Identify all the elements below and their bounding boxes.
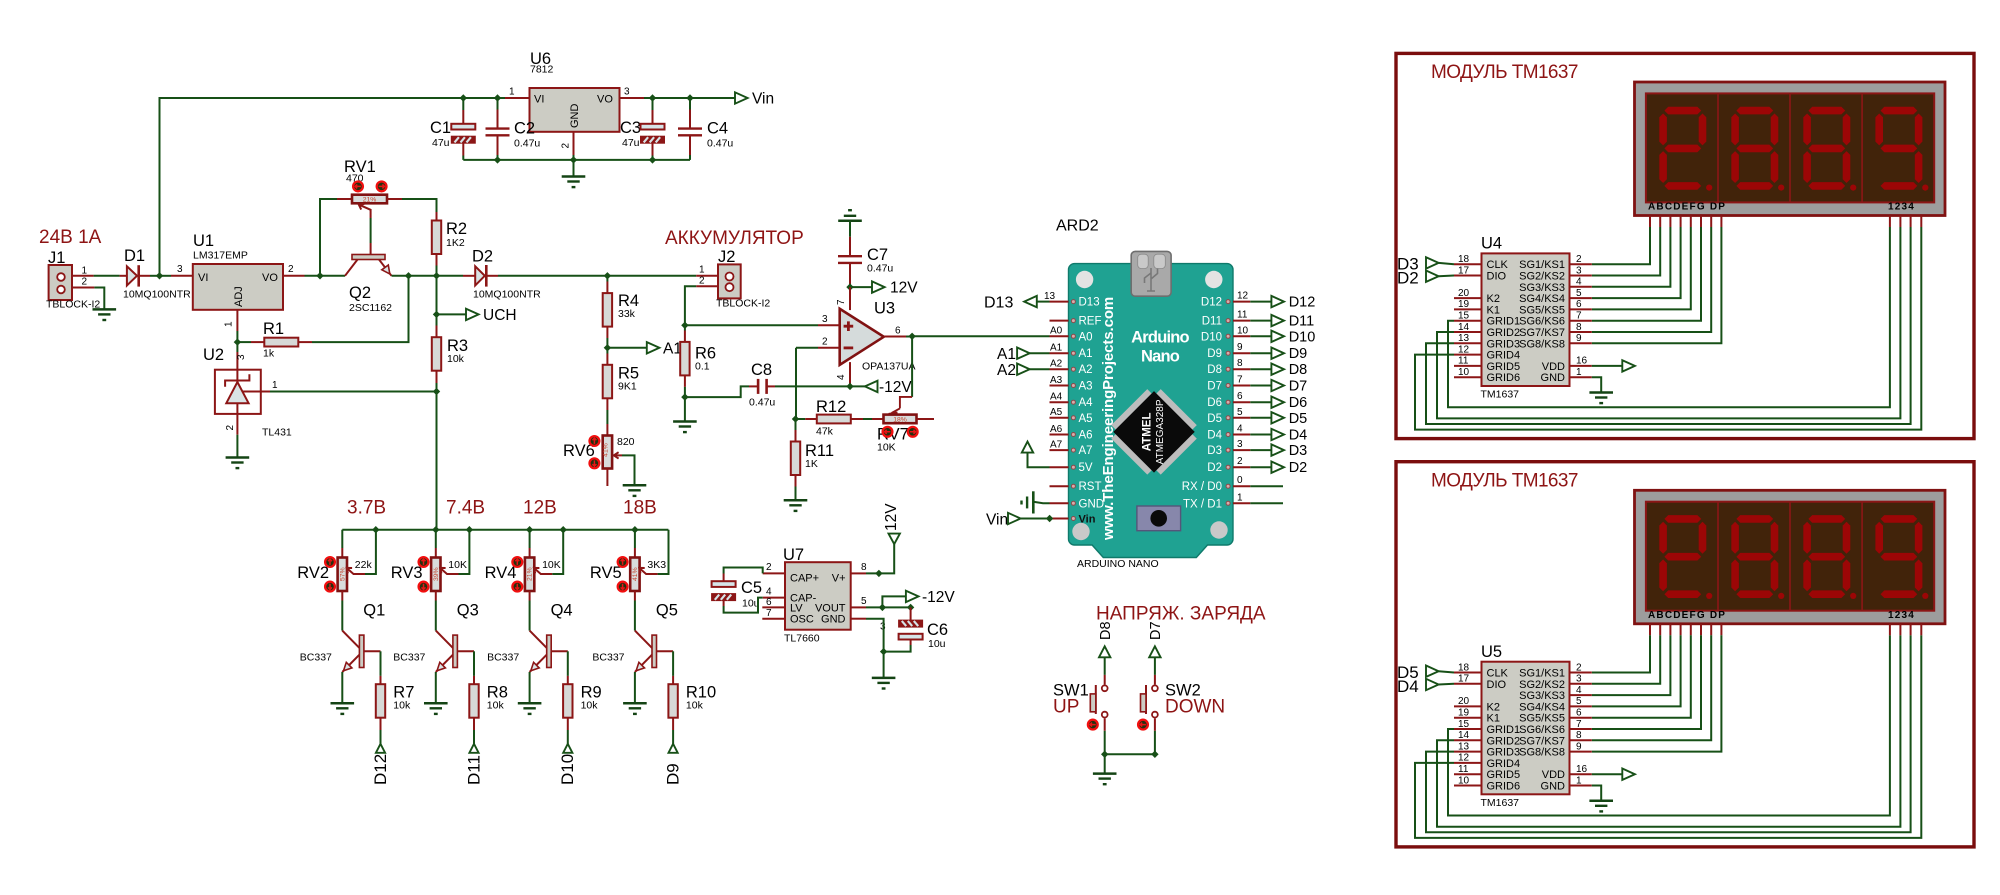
svg-text:ARD2: ARD2 bbox=[1056, 218, 1099, 235]
svg-text:TL431: TL431 bbox=[262, 427, 292, 439]
svg-text:C4: C4 bbox=[707, 120, 728, 138]
wire display seg B to SG2 (U5) bbox=[1659, 624, 1661, 636]
svg-text:7.4В: 7.4В bbox=[446, 498, 485, 519]
svg-text:15: 15 bbox=[1458, 719, 1470, 730]
module box МОДУЛЬ TM1637 (U5) bbox=[1396, 462, 1974, 847]
svg-text:C8: C8 bbox=[751, 361, 772, 379]
svg-text:GRID1: GRID1 bbox=[1487, 316, 1521, 328]
svg-text:Vin: Vin bbox=[1079, 514, 1096, 526]
svg-text:A1: A1 bbox=[1079, 348, 1093, 360]
svg-text:SG3/KS3: SG3/KS3 bbox=[1519, 282, 1565, 294]
pin GRID4 U5 bbox=[1454, 762, 1482, 764]
wire D1 node up and right to C1/U6 rail bbox=[160, 98, 464, 276]
wire U6 VO to Vin terminal bbox=[644, 97, 735, 99]
junction bbox=[879, 604, 886, 611]
svg-text:SG3/KS3: SG3/KS3 bbox=[1519, 690, 1565, 702]
display digit 2 (U4) bbox=[1736, 107, 1773, 115]
svg-text:A4: A4 bbox=[1050, 392, 1063, 403]
display digit 3 (U4) bbox=[1808, 107, 1845, 115]
svg-text:12: 12 bbox=[1458, 344, 1470, 355]
junction bbox=[570, 156, 577, 163]
svg-text:VO: VO bbox=[597, 94, 613, 106]
svg-text:D2: D2 bbox=[1207, 462, 1222, 474]
node R4 top bbox=[604, 272, 611, 279]
svg-text:10: 10 bbox=[1458, 367, 1470, 378]
svg-text:GRID2: GRID2 bbox=[1487, 327, 1521, 339]
svg-text:5V: 5V bbox=[1079, 462, 1093, 474]
svg-text:11: 11 bbox=[1458, 356, 1469, 367]
pin K2 U5 bbox=[1454, 705, 1482, 707]
svg-text:K1: K1 bbox=[1487, 713, 1500, 725]
wire display seg D to SG4 (U4) bbox=[1680, 216, 1682, 228]
svg-text:SG1/KS1: SG1/KS1 bbox=[1519, 259, 1565, 271]
svg-text:4: 4 bbox=[1576, 685, 1582, 696]
svg-text:Q5: Q5 bbox=[656, 602, 678, 620]
svg-text:3: 3 bbox=[1576, 265, 1582, 276]
svg-text:SG7/KS7: SG7/KS7 bbox=[1519, 327, 1565, 339]
svg-text:Q1: Q1 bbox=[363, 602, 385, 620]
node after D1 bbox=[156, 272, 163, 279]
pin SG6/KS6 U5 bbox=[1570, 728, 1592, 730]
svg-text:12В: 12В bbox=[523, 498, 557, 519]
svg-text:C5: C5 bbox=[741, 579, 762, 597]
svg-text:U5: U5 bbox=[1481, 643, 1502, 661]
wire GRID1 to digit 1 (U4) bbox=[1448, 227, 1890, 407]
svg-text:RV3: RV3 bbox=[391, 564, 423, 582]
feedback wire out to RV7 wiper bbox=[911, 336, 913, 397]
svg-text:0.47u: 0.47u bbox=[707, 138, 733, 150]
svg-text:8: 8 bbox=[861, 562, 867, 573]
svg-text:7: 7 bbox=[1576, 311, 1582, 322]
svg-text:МОДУЛЬ TM1637: МОДУЛЬ TM1637 bbox=[1431, 470, 1578, 491]
svg-text:SG7/KS7: SG7/KS7 bbox=[1519, 735, 1565, 747]
wire display seg E to SG5 (U4) bbox=[1690, 216, 1692, 228]
svg-text:5: 5 bbox=[1576, 288, 1582, 299]
terminal Vin bbox=[735, 92, 748, 103]
svg-text:TX / D1: TX / D1 bbox=[1183, 498, 1222, 510]
svg-text:5: 5 bbox=[861, 596, 867, 607]
ATMEGA328P chip bbox=[1105, 382, 1204, 481]
wire display seg G to SG7 (U4) bbox=[1710, 216, 1712, 228]
wire GRID3 to digit 3 (U4) bbox=[1426, 227, 1911, 424]
svg-text:10MQ100NTR: 10MQ100NTR bbox=[473, 289, 541, 301]
pin GRID6 U4 bbox=[1454, 376, 1482, 378]
svg-text:8: 8 bbox=[1237, 358, 1243, 369]
svg-text:CLK: CLK bbox=[1487, 259, 1509, 271]
svg-text:2: 2 bbox=[82, 277, 88, 288]
pin SG3/KS3 U5 bbox=[1570, 694, 1592, 696]
wire display seg C to SG3 (U5) bbox=[1669, 624, 1671, 636]
junction bbox=[649, 94, 656, 101]
junction bbox=[1046, 515, 1053, 522]
display digit 2 (U5) bbox=[1736, 515, 1773, 523]
svg-text:D4: D4 bbox=[1289, 428, 1308, 444]
pin K1 U4 bbox=[1454, 308, 1482, 310]
node R2 bottom bbox=[433, 272, 440, 279]
pin GRID3 U4 bbox=[1454, 342, 1482, 344]
svg-text:2: 2 bbox=[699, 276, 705, 287]
pin SG4/KS4 U4 bbox=[1570, 297, 1592, 299]
svg-text:C1: C1 bbox=[430, 119, 451, 137]
ground (U5) bbox=[1592, 786, 1601, 801]
wire display seg G to SG7 (U5) bbox=[1710, 624, 1712, 636]
svg-text:D9: D9 bbox=[1289, 346, 1308, 362]
svg-text:ABCDEFG DP: ABCDEFG DP bbox=[1648, 610, 1726, 621]
svg-text:A2: A2 bbox=[997, 362, 1016, 379]
node U1 VO / RV1 bbox=[316, 272, 323, 279]
svg-text:R1: R1 bbox=[263, 320, 284, 338]
svg-text:13: 13 bbox=[1458, 741, 1470, 752]
ground (RV6) bbox=[623, 485, 647, 496]
svg-text:16: 16 bbox=[1576, 764, 1588, 775]
svg-text:8: 8 bbox=[1576, 322, 1582, 333]
svg-text:D9: D9 bbox=[1207, 348, 1222, 360]
pin A7 (left) bbox=[1050, 449, 1069, 451]
wire divider bus bbox=[342, 529, 668, 531]
svg-text:1234: 1234 bbox=[1888, 202, 1915, 213]
svg-text:820: 820 bbox=[617, 436, 635, 448]
svg-text:3: 3 bbox=[1237, 439, 1243, 450]
pin GRID3 U5 bbox=[1454, 751, 1482, 753]
wire J1 pin2 to ground bbox=[94, 288, 104, 310]
terminal UCH bbox=[437, 313, 467, 315]
ground (U7) bbox=[872, 678, 896, 689]
svg-text:SG5/KS5: SG5/KS5 bbox=[1519, 304, 1565, 316]
pin SG1/KS1 U4 bbox=[1570, 263, 1592, 265]
svg-text:VDD: VDD bbox=[1542, 361, 1565, 373]
svg-text:2: 2 bbox=[225, 425, 236, 431]
svg-text:47u: 47u bbox=[622, 137, 640, 149]
svg-text:4: 4 bbox=[1576, 277, 1582, 288]
wire D2 to J2 bbox=[498, 275, 696, 277]
terminal 12V bbox=[850, 286, 872, 288]
display digit 4 (U5) bbox=[1881, 515, 1918, 523]
pin GND U4 bbox=[1570, 376, 1592, 378]
terminal D9 bbox=[669, 744, 678, 753]
svg-text:МОДУЛЬ TM1637: МОДУЛЬ TM1637 bbox=[1431, 62, 1578, 83]
svg-text:0.47u: 0.47u bbox=[514, 138, 540, 150]
svg-text:7: 7 bbox=[1237, 375, 1243, 386]
ground (Q3) bbox=[424, 703, 448, 714]
pin DIO U4 bbox=[1454, 275, 1482, 277]
node -12V bbox=[846, 383, 853, 390]
svg-text:0.47u: 0.47u bbox=[867, 263, 893, 275]
svg-text:VI: VI bbox=[534, 94, 544, 106]
svg-text:47u: 47u bbox=[432, 137, 450, 149]
terminal D7 bbox=[1250, 385, 1271, 387]
svg-text:10k: 10k bbox=[581, 700, 599, 712]
pin VDD U5 bbox=[1570, 773, 1592, 775]
node R12/R11 bbox=[792, 415, 799, 422]
svg-text:18В: 18В bbox=[623, 498, 657, 519]
svg-text:20: 20 bbox=[1458, 696, 1470, 707]
svg-text:19: 19 bbox=[1458, 299, 1470, 310]
svg-text:15: 15 bbox=[1458, 311, 1470, 322]
pin 3 GND bbox=[851, 618, 866, 620]
reset button bbox=[1137, 506, 1181, 531]
svg-text:10k: 10k bbox=[686, 700, 704, 712]
svg-text:D5: D5 bbox=[1289, 411, 1308, 427]
svg-text:10K: 10K bbox=[877, 442, 896, 454]
svg-text:ATMEL: ATMEL bbox=[1142, 413, 1154, 452]
svg-text:11: 11 bbox=[1237, 310, 1248, 321]
svg-text:U2: U2 bbox=[203, 346, 224, 364]
svg-text:A2: A2 bbox=[1079, 364, 1093, 376]
svg-text:SG8/KS8: SG8/KS8 bbox=[1519, 338, 1565, 350]
svg-text:-12V: -12V bbox=[879, 379, 912, 396]
pin RST (left) bbox=[1050, 485, 1069, 487]
svg-text:A1: A1 bbox=[663, 341, 682, 358]
svg-text:U1: U1 bbox=[193, 232, 214, 250]
wire R2/R3 column bbox=[436, 276, 438, 326]
svg-text:1: 1 bbox=[509, 87, 515, 98]
svg-text:D12: D12 bbox=[371, 754, 390, 785]
svg-text:GRID5: GRID5 bbox=[1487, 769, 1521, 781]
svg-text:0.47u: 0.47u bbox=[749, 397, 775, 409]
pin D3 (right) bbox=[1233, 449, 1250, 451]
wire -in down to R12 bbox=[795, 348, 797, 419]
svg-text:DIO: DIO bbox=[1487, 271, 1507, 283]
pin REF (left) bbox=[1050, 320, 1069, 322]
wire Q2 emitter to D2 bbox=[392, 275, 464, 277]
svg-text:2: 2 bbox=[1576, 662, 1582, 673]
svg-text:A1: A1 bbox=[997, 346, 1016, 363]
pin A2 (left) bbox=[1050, 368, 1069, 370]
svg-text:A2: A2 bbox=[1050, 359, 1063, 370]
svg-text:VO: VO bbox=[262, 272, 278, 284]
svg-text:GND: GND bbox=[821, 614, 846, 626]
wire GRID3 to digit 3 (U5) bbox=[1426, 635, 1911, 832]
pin SG8/KS8 U5 bbox=[1570, 751, 1592, 753]
pin D5 (right) bbox=[1233, 417, 1250, 419]
svg-text:2: 2 bbox=[1237, 456, 1243, 467]
svg-text:SG2/KS2: SG2/KS2 bbox=[1519, 271, 1565, 283]
USB connector bbox=[1131, 251, 1171, 296]
svg-text:U3: U3 bbox=[874, 300, 895, 318]
pin A5 (left) bbox=[1050, 417, 1069, 419]
svg-text:1K: 1K bbox=[805, 458, 818, 470]
svg-text:17: 17 bbox=[1458, 265, 1470, 276]
svg-text:3: 3 bbox=[1576, 674, 1582, 685]
svg-text:BC337: BC337 bbox=[592, 652, 624, 664]
ground (U4) bbox=[1592, 377, 1601, 392]
svg-text:D10: D10 bbox=[1201, 331, 1222, 343]
junction bbox=[907, 604, 914, 611]
svg-text:RX / D0: RX / D0 bbox=[1182, 481, 1222, 493]
svg-text:K2: K2 bbox=[1487, 701, 1500, 713]
junction bbox=[908, 333, 915, 340]
svg-text:20: 20 bbox=[1458, 288, 1470, 299]
wire display seg E to SG5 (U5) bbox=[1690, 624, 1692, 636]
svg-text:2: 2 bbox=[822, 337, 828, 348]
svg-text:SG1/KS1: SG1/KS1 bbox=[1519, 668, 1565, 680]
wire RV1 right to R2 bbox=[402, 199, 437, 212]
pin K1 U5 bbox=[1454, 717, 1482, 719]
pin GRID1 U4 bbox=[1454, 320, 1482, 322]
svg-text:SG4/KS4: SG4/KS4 bbox=[1519, 293, 1565, 305]
svg-text:SG5/KS5: SG5/KS5 bbox=[1519, 713, 1565, 725]
svg-text:22k: 22k bbox=[355, 559, 373, 571]
wire R1 right to emitter node bbox=[312, 276, 409, 342]
svg-text:GND: GND bbox=[569, 104, 581, 129]
svg-text:R2: R2 bbox=[446, 220, 467, 238]
svg-text:8: 8 bbox=[1576, 730, 1582, 741]
pin SG2/KS2 U5 bbox=[1570, 683, 1592, 685]
svg-text:A1: A1 bbox=[1050, 343, 1063, 354]
svg-text:18: 18 bbox=[1458, 254, 1470, 265]
svg-text:GRID5: GRID5 bbox=[1487, 361, 1521, 373]
svg-text:D12: D12 bbox=[1201, 297, 1222, 309]
svg-text:17: 17 bbox=[1458, 674, 1470, 685]
terminal A1 bbox=[607, 347, 646, 349]
wire J2 pin2 down to +input node bbox=[685, 286, 696, 325]
svg-text:RV4: RV4 bbox=[485, 564, 517, 582]
svg-text:VI: VI bbox=[198, 272, 208, 284]
junction bbox=[466, 526, 473, 533]
wire U1 VO to node bbox=[305, 275, 346, 277]
pin A1 (left) bbox=[1050, 352, 1069, 354]
pin6 out bbox=[884, 336, 906, 338]
display digit 4 (U4) bbox=[1881, 107, 1918, 115]
ground (R6) bbox=[684, 397, 686, 421]
pin 7 OSC bbox=[762, 618, 785, 620]
svg-text:UP: UP bbox=[1053, 697, 1079, 718]
pin SG5/KS5 U5 bbox=[1570, 717, 1592, 719]
svg-text:A4: A4 bbox=[1079, 397, 1094, 409]
svg-text:33k: 33k bbox=[618, 308, 636, 320]
svg-text:10k: 10k bbox=[393, 700, 411, 712]
wire display seg F to SG6 (U4) bbox=[1700, 216, 1702, 228]
pin D12 (right) bbox=[1233, 301, 1250, 303]
svg-text:D13: D13 bbox=[1079, 297, 1100, 309]
svg-text:C7: C7 bbox=[867, 246, 888, 264]
svg-text:1234: 1234 bbox=[1888, 610, 1915, 621]
pin A6 (left) bbox=[1050, 434, 1069, 436]
wire display seg A to SG1 (U5) bbox=[1649, 624, 1651, 636]
svg-text:Arduino: Arduino bbox=[1131, 329, 1189, 347]
pin SG7/KS7 U4 bbox=[1570, 331, 1592, 333]
svg-text:39%: 39% bbox=[433, 567, 440, 581]
svg-text:CLK: CLK bbox=[1487, 668, 1509, 680]
svg-text:A6: A6 bbox=[1050, 424, 1063, 435]
wire display seg F to SG6 (U5) bbox=[1700, 624, 1702, 636]
svg-text:12: 12 bbox=[1458, 753, 1470, 764]
svg-text:10K: 10K bbox=[448, 559, 467, 571]
svg-text:V+: V+ bbox=[832, 573, 846, 585]
svg-text:0.1: 0.1 bbox=[695, 361, 710, 373]
terminal -12V bbox=[865, 381, 878, 392]
module box МОДУЛЬ TM1637 (U4) bbox=[1396, 53, 1974, 438]
7-segment display (U4) bbox=[1635, 82, 1946, 216]
ground symbol (GND pin) bbox=[1022, 491, 1034, 513]
svg-text:K1: K1 bbox=[1487, 304, 1500, 316]
svg-text:21%: 21% bbox=[527, 567, 534, 581]
svg-text:D11: D11 bbox=[464, 755, 483, 785]
pin D7 (right) bbox=[1233, 385, 1250, 387]
svg-text:D10: D10 bbox=[1289, 329, 1316, 345]
svg-text:A7: A7 bbox=[1050, 439, 1063, 450]
ground (switches) bbox=[1104, 754, 1106, 773]
svg-text:D7: D7 bbox=[1207, 381, 1222, 393]
pin GND U5 bbox=[1570, 785, 1592, 787]
svg-text:A5: A5 bbox=[1050, 407, 1063, 418]
svg-text:GND: GND bbox=[1541, 372, 1566, 384]
svg-text:Nano: Nano bbox=[1141, 348, 1180, 366]
ground (J1 pin2) bbox=[93, 309, 117, 320]
svg-text:11: 11 bbox=[1458, 764, 1469, 775]
svg-text:1: 1 bbox=[272, 380, 278, 391]
pin SG4/KS4 U5 bbox=[1570, 705, 1592, 707]
svg-text:Vin: Vin bbox=[986, 512, 1008, 529]
svg-text:2: 2 bbox=[288, 264, 294, 275]
ground (U6 rail) bbox=[573, 160, 575, 177]
svg-text:A7: A7 bbox=[1079, 445, 1093, 457]
pin D4 (right) bbox=[1233, 434, 1250, 436]
pin GRID2 U5 bbox=[1454, 739, 1482, 741]
svg-text:1k: 1k bbox=[263, 348, 275, 360]
pin D10 (right) bbox=[1233, 335, 1250, 337]
wire GRID4 to digit 4 (U4) bbox=[1415, 227, 1921, 430]
node +input bbox=[681, 322, 688, 329]
wire switches common bbox=[1105, 753, 1155, 755]
svg-text:6: 6 bbox=[1576, 708, 1582, 719]
junction bbox=[875, 570, 882, 577]
pin CLK U5 bbox=[1454, 672, 1482, 674]
svg-text:-12V: -12V bbox=[922, 589, 955, 606]
svg-text:6: 6 bbox=[1576, 299, 1582, 310]
svg-text:1: 1 bbox=[224, 321, 235, 327]
pin GND (left) bbox=[1050, 502, 1069, 504]
pin SG6/KS6 U4 bbox=[1570, 320, 1592, 322]
svg-text:RST: RST bbox=[1079, 481, 1102, 493]
svg-text:D3: D3 bbox=[1207, 445, 1222, 457]
svg-text:TM1637: TM1637 bbox=[1481, 797, 1520, 809]
wire D1 node to U1 VI bbox=[160, 275, 172, 277]
Arduino Nano board ARD2 bbox=[1069, 251, 1234, 557]
svg-text:24В 1А: 24В 1А bbox=[39, 227, 102, 248]
svg-text:A5: A5 bbox=[1079, 413, 1093, 425]
wire GRID2 to digit 2 (U5) bbox=[1437, 635, 1900, 826]
svg-text:RV2: RV2 bbox=[297, 564, 329, 582]
RV1 wiper arrow bbox=[359, 204, 371, 218]
svg-text:A6: A6 bbox=[1079, 430, 1093, 442]
svg-text:DIO: DIO bbox=[1487, 679, 1507, 691]
junction bbox=[494, 94, 501, 101]
wire out to A0 bbox=[912, 335, 1049, 337]
svg-text:A0: A0 bbox=[1050, 326, 1063, 337]
svg-text:ADJ: ADJ bbox=[233, 286, 245, 307]
svg-text:Q2: Q2 bbox=[349, 284, 371, 302]
svg-text:3: 3 bbox=[822, 314, 828, 325]
svg-text:41%: 41% bbox=[603, 443, 610, 457]
svg-text:CAP+: CAP+ bbox=[790, 573, 819, 585]
svg-text:D9: D9 bbox=[664, 763, 683, 785]
svg-text:9: 9 bbox=[1237, 342, 1243, 353]
wire GRID2 to digit 2 (U4) bbox=[1437, 227, 1900, 418]
pin GRID5 U4 bbox=[1454, 365, 1482, 367]
junction bbox=[1151, 751, 1158, 758]
svg-text:10k: 10k bbox=[487, 700, 505, 712]
svg-text:4: 4 bbox=[1237, 424, 1243, 435]
svg-text:12: 12 bbox=[1237, 291, 1249, 302]
svg-text:D8: D8 bbox=[1098, 621, 1114, 640]
7-segment display (U5) bbox=[1635, 490, 1946, 624]
svg-text:Q4: Q4 bbox=[551, 602, 573, 620]
pin D2 (right) bbox=[1233, 466, 1250, 468]
pin TX / D1 (right) bbox=[1233, 502, 1250, 504]
wire RV1 left to VO node bbox=[320, 199, 337, 276]
svg-text:13: 13 bbox=[1458, 333, 1470, 344]
